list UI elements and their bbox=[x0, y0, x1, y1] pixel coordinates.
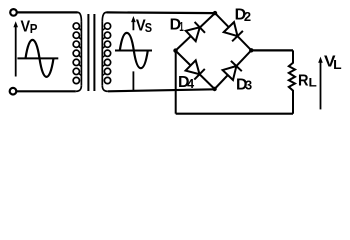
svg-text:1: 1 bbox=[179, 19, 184, 34]
terminal top-left bbox=[10, 9, 17, 16]
wire right corner to RL bbox=[251, 49, 293, 51]
svg-text:S: S bbox=[145, 20, 153, 35]
wire left corner down to bottom rail bbox=[175, 51, 177, 114]
svg-text:R: R bbox=[298, 73, 309, 90]
wire secondary top to bridge bbox=[107, 11, 216, 14]
terminal bottom-left bbox=[10, 88, 17, 95]
svg-text:4: 4 bbox=[187, 76, 195, 91]
transformer primary winding T1 bbox=[73, 12, 81, 91]
svg-text:L: L bbox=[309, 76, 317, 90]
node bottom bbox=[212, 87, 216, 91]
arrow VL bbox=[318, 57, 323, 110]
node top (junction dot) bbox=[213, 11, 217, 15]
transformer core bbox=[88, 14, 94, 91]
sine symbol VS bbox=[115, 33, 152, 68]
svg-text:2: 2 bbox=[244, 9, 251, 24]
arrow VP bbox=[13, 21, 18, 76]
edge top-right (D2) bbox=[215, 13, 251, 50]
svg-text:P: P bbox=[30, 21, 38, 36]
resistor RL bbox=[289, 50, 295, 113]
bridge diamond edges bbox=[176, 13, 252, 89]
arrow VS (drawn before sine so halo masks shaft) bbox=[131, 16, 136, 91]
svg-text:3: 3 bbox=[245, 78, 252, 93]
bottom rail bbox=[176, 113, 293, 115]
sine symbol VP bbox=[17, 40, 58, 77]
wire secondary bottom to bridge bbox=[108, 89, 215, 91]
edge bottom-right (D3) bbox=[215, 50, 252, 89]
edge left-bottom (D4) bbox=[176, 51, 215, 89]
svg-text:L: L bbox=[333, 58, 342, 72]
edge left-top (D1) bbox=[176, 13, 216, 51]
diode D4 bbox=[186, 60, 205, 79]
wire bottom primary bbox=[17, 90, 76, 92]
wire top primary bbox=[17, 11, 77, 13]
node right bbox=[249, 48, 253, 52]
diode D1 bbox=[186, 22, 205, 41]
diode D3 bbox=[223, 61, 242, 80]
diode D2 bbox=[224, 22, 243, 41]
node left bbox=[173, 48, 177, 52]
transformer secondary winding bbox=[102, 12, 110, 91]
